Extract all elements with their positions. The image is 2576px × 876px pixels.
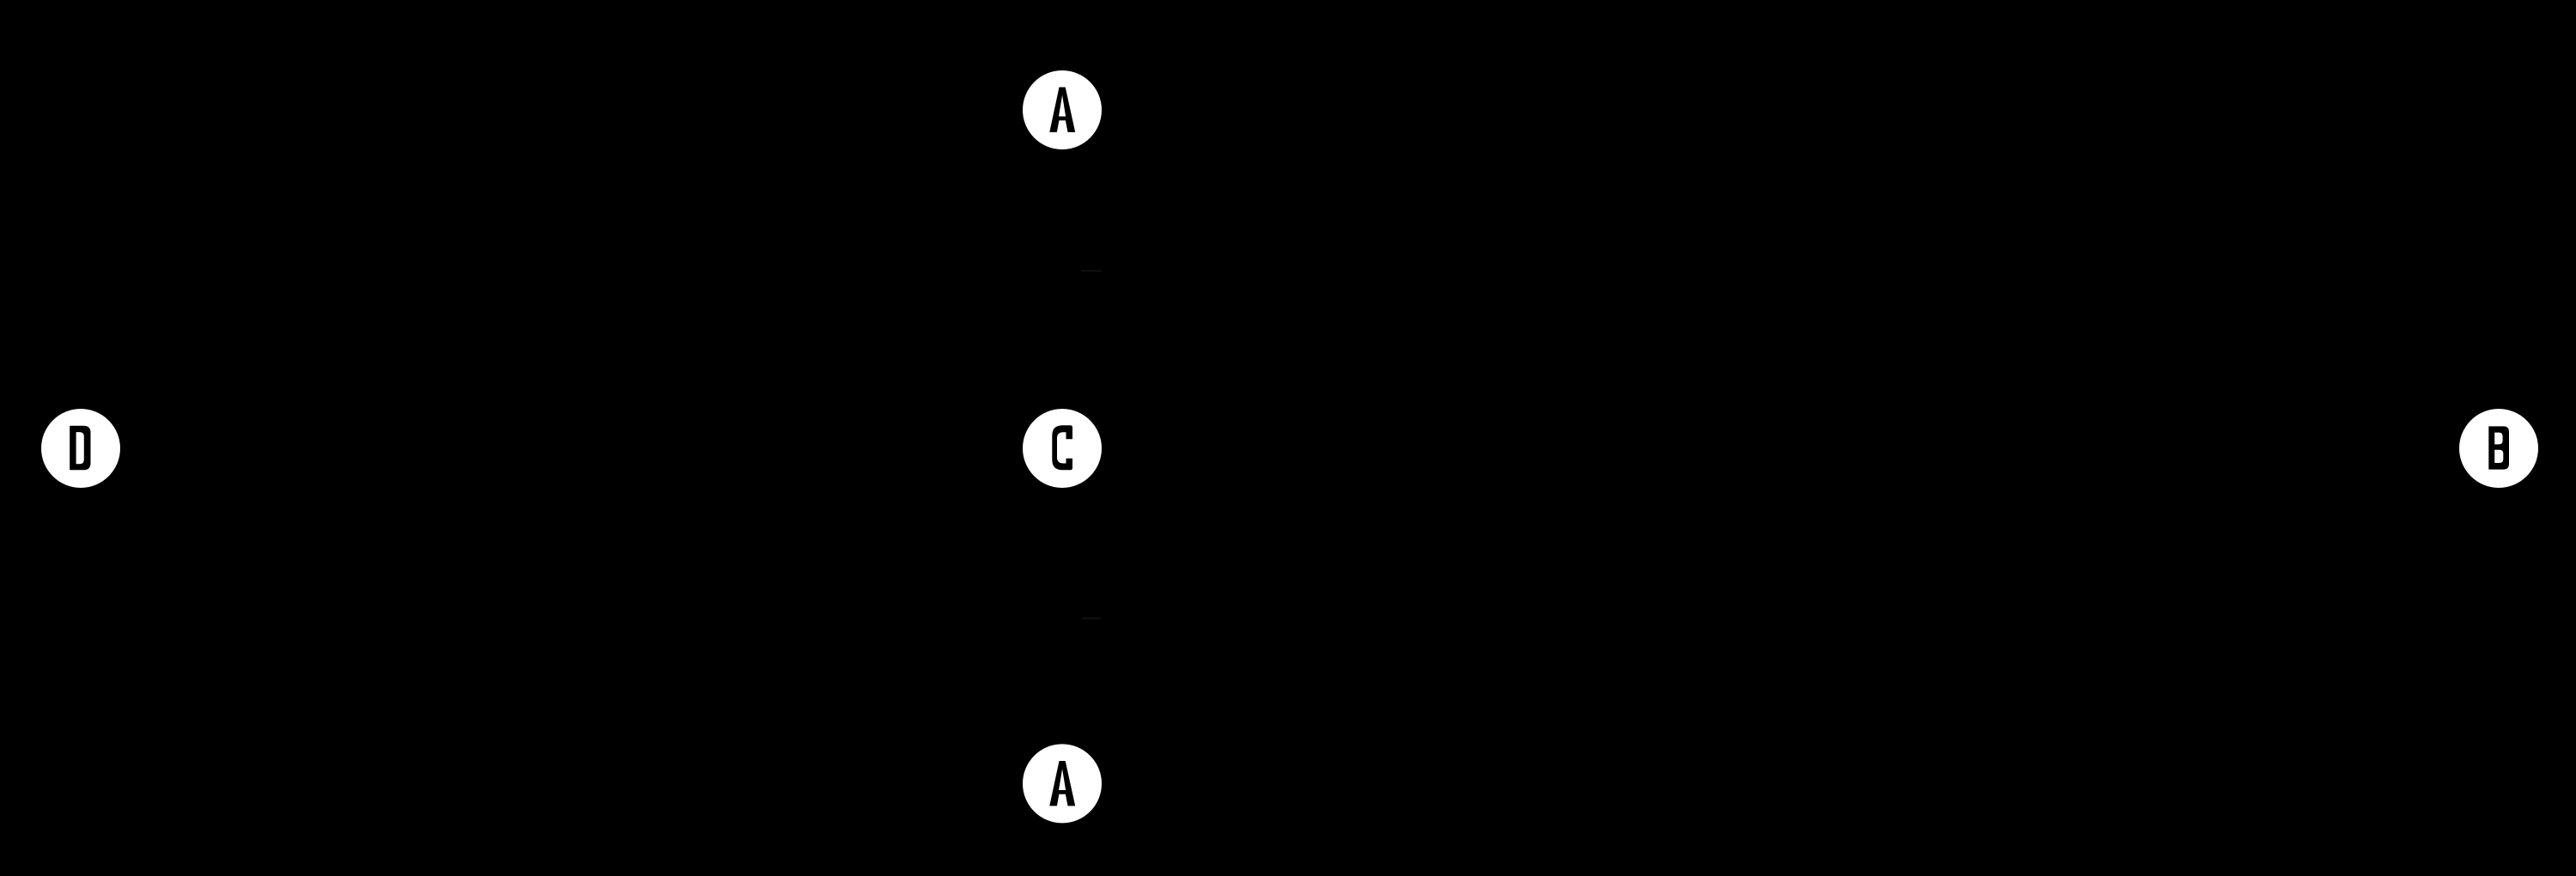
node C : white connector bubble with letter C	[1023, 409, 1102, 488]
node A (bottom) : white connector bubble with letter A	[1023, 744, 1102, 823]
wire (upper faint segment near capacitor between node A top and node C)	[1082, 271, 1101, 271]
wire (lower faint segment near capacitor between node C and node A bottom)	[1082, 617, 1101, 618]
node D : white connector bubble with letter D	[41, 409, 120, 488]
node B : white connector bubble with letter B	[2459, 409, 2538, 488]
node A (top) : white connector bubble with letter A	[1023, 70, 1102, 149]
